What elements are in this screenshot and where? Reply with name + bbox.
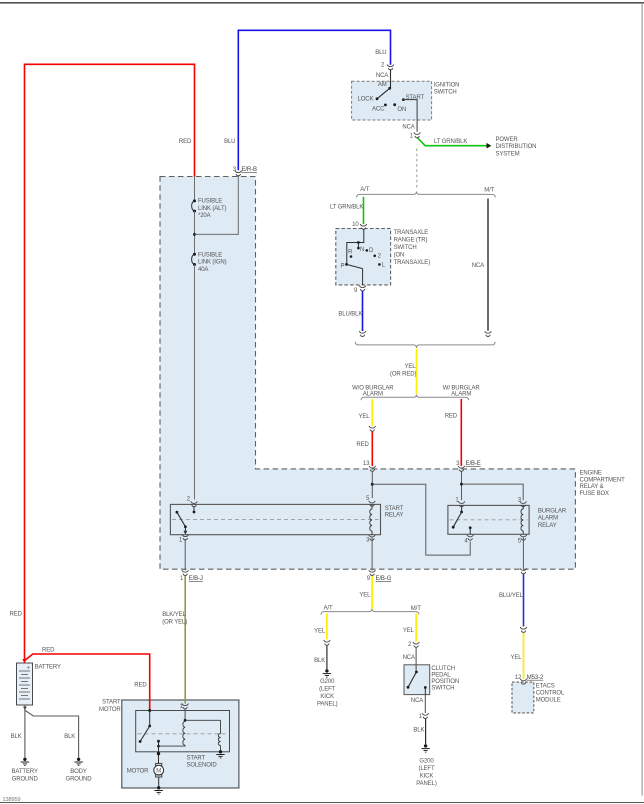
- svg-text:LINK (ALT): LINK (ALT): [198, 206, 226, 212]
- svg-text:YEL: YEL: [314, 629, 326, 635]
- svg-text:E/R-B: E/R-B: [242, 167, 258, 173]
- svg-text:BODY: BODY: [70, 769, 87, 775]
- battery negative arrowhead: [23, 707, 27, 711]
- svg-text:M53-2: M53-2: [527, 675, 544, 681]
- TR contact 2: [373, 255, 376, 258]
- svg-text:GROUND: GROUND: [12, 776, 39, 782]
- ignition switch blade AM-LOCK: [377, 88, 390, 99]
- page top border: [0, 2, 644, 4]
- hold-in coil: [218, 734, 220, 746]
- svg-text:P: P: [341, 264, 345, 270]
- svg-text:NCA: NCA: [402, 125, 414, 131]
- svg-text:BLK: BLK: [314, 658, 325, 664]
- svg-text:SYSTEM: SYSTEM: [496, 152, 520, 158]
- node on pin13 wire: [371, 483, 374, 486]
- svg-text:TRANSAXLE): TRANSAXLE): [394, 260, 431, 266]
- svg-text:G200: G200: [419, 758, 434, 764]
- ignition switch contact ON: [393, 103, 396, 106]
- svg-text:1: 1: [419, 714, 423, 720]
- ground: motor ground: [155, 786, 163, 794]
- svg-text:ETACS: ETACS: [536, 684, 555, 690]
- svg-text:ENGINE: ENGINE: [580, 471, 602, 477]
- page bottom border: [0, 802, 644, 803]
- wire: junction over and down to burglar relay pin 4: [372, 484, 470, 555]
- connector: TR switch pin 9: [359, 286, 366, 291]
- node on E/B-E wire: [460, 483, 463, 486]
- svg-text:10: 10: [352, 222, 359, 228]
- ground G200 (clutch): [421, 744, 429, 752]
- svg-text:BLU/YEL: BLU/YEL: [499, 593, 524, 599]
- ignition switch contact LOCK: [376, 97, 379, 100]
- start relay centerline: [172, 519, 379, 521]
- connector: start relay pin 2: [191, 501, 198, 506]
- svg-text:BLK: BLK: [413, 727, 424, 733]
- wire BLK to G200: [326, 645, 328, 669]
- battery box: [17, 663, 33, 705]
- wire across to hold-in coil: [185, 719, 220, 721]
- svg-text:MOTOR: MOTOR: [127, 768, 149, 774]
- svg-text:GROUND: GROUND: [66, 776, 93, 782]
- wire BLU/BLK from TR pin 9 down: [362, 291, 364, 331]
- svg-text:3: 3: [456, 461, 460, 467]
- wire gray: junction across and up to connector 3 E/R-B: [195, 175, 239, 234]
- svg-text:NCA: NCA: [411, 698, 423, 704]
- pull-in coil: [183, 721, 185, 745]
- svg-text:ALARM: ALARM: [363, 392, 383, 398]
- TR contact R: [350, 255, 353, 258]
- svg-text:AM: AM: [378, 82, 387, 88]
- svg-text:START: START: [406, 95, 425, 101]
- connector: inline yel-blk left: [324, 640, 331, 645]
- svg-text:BLK: BLK: [64, 734, 75, 740]
- burglar relay wire pin1 stub: [461, 505, 463, 511]
- connector: burglar relay pin 5: [520, 535, 527, 540]
- solenoid blade end contact: [139, 740, 142, 743]
- connector: clutch switch pin 1: [422, 713, 429, 718]
- connector: burglar relay pin 3: [520, 501, 527, 506]
- start relay contact (pin2): [193, 511, 196, 514]
- wire LT GRN/BLK A/T branch to TR switch pin 10: [363, 197, 365, 224]
- svg-text:CLUTCH: CLUTCH: [431, 666, 455, 672]
- svg-text:FUSE BOX: FUSE BOX: [580, 491, 609, 497]
- svg-text:(LEFT: (LEFT: [418, 766, 435, 772]
- svg-text:BLU: BLU: [375, 50, 386, 56]
- svg-text:NCA: NCA: [472, 263, 484, 269]
- start relay blade: [177, 512, 186, 526]
- clutch pedal position switch box: [404, 665, 430, 695]
- svg-text:FUSIBLE: FUSIBLE: [198, 252, 222, 258]
- svg-text:BURGLAR: BURGLAR: [538, 508, 567, 514]
- wire from clutch switch to connector 1: [424, 695, 426, 713]
- start relay blade to pin 1: [184, 525, 187, 528]
- svg-text:RED: RED: [134, 682, 147, 688]
- start motor outer box: [122, 700, 239, 788]
- connector: fuse box 9 E/B-G: [369, 570, 376, 575]
- TR contact D: [366, 249, 369, 252]
- wire from START contact out of ignition switch: [403, 100, 417, 132]
- hold-in coil lead: [220, 720, 222, 733]
- svg-text:(OR YEL): (OR YEL): [162, 619, 187, 625]
- svg-text:9: 9: [367, 576, 371, 582]
- connector: inline blu/yel to yel: [520, 627, 527, 632]
- start motor: node red entry at solenoid: [148, 709, 151, 712]
- svg-text:PANEL): PANEL): [416, 781, 437, 787]
- svg-text:SWITCH: SWITCH: [431, 685, 454, 691]
- wire BLU/YEL from burglar relay to inline connector: [523, 574, 525, 627]
- fusible link IGN symbol: [192, 254, 195, 264]
- svg-text:RELAY: RELAY: [385, 513, 404, 519]
- start relay coil (pins 5-3): [371, 504, 373, 509]
- svg-text:ACC: ACC: [372, 106, 385, 112]
- clutch switch output stub: [424, 688, 426, 695]
- svg-text:POWER: POWER: [496, 137, 519, 143]
- ignition switch contact AM: [388, 87, 391, 90]
- svg-text:M/T: M/T: [411, 606, 421, 612]
- clutch switch fixed contact: [424, 686, 427, 689]
- wire RED: branch from battery to start motor solenoid: [25, 654, 150, 711]
- svg-text:*20A: *20A: [198, 213, 211, 219]
- connector: start motor pin 1: [182, 704, 189, 709]
- connector: fuse box 3 E/R-B: [235, 171, 242, 176]
- start relay pin1 arrowhead: [184, 531, 188, 535]
- connector: start relay pin 5: [369, 501, 376, 506]
- svg-text:2: 2: [408, 642, 412, 648]
- svg-text:FUSIBLE: FUSIBLE: [198, 199, 222, 205]
- wire: pin 13 down to start relay pin 5: [371, 471, 373, 498]
- clutch switch blade end contact: [407, 686, 410, 689]
- svg-text:A/T: A/T: [324, 606, 333, 612]
- ground: battery ground: [21, 758, 29, 766]
- wire: start relay pin1 to box edge connector 1 E/B-J: [184, 539, 186, 571]
- connector: burglar relay pin 1: [458, 501, 465, 506]
- node coil return tap: [157, 745, 160, 748]
- svg-text:(LEFT: (LEFT: [319, 686, 336, 692]
- brace: burglar alarm option split: [361, 395, 469, 401]
- solenoid switch feed: [149, 711, 151, 727]
- svg-text:N: N: [360, 247, 364, 253]
- svg-text:KICK: KICK: [320, 694, 334, 700]
- svg-text:RELAY &: RELAY &: [580, 484, 604, 490]
- svg-text:RANGE (TR): RANGE (TR): [394, 238, 428, 244]
- wire YEL M/T branch to clutch switch: [415, 614, 417, 642]
- connector: ignition pin 2: [387, 65, 394, 70]
- svg-text:BLU: BLU: [224, 139, 235, 145]
- svg-text:RELAY: RELAY: [538, 523, 557, 529]
- solenoid fixed contact: [157, 740, 160, 743]
- connector: fuse box pin 3 E/B-E: [458, 466, 465, 471]
- svg-text:PEDAL: PEDAL: [431, 672, 451, 678]
- start relay box: [170, 504, 380, 534]
- engine compartment relay &amp; fuse box (L-shaped shaded block): [160, 177, 575, 570]
- ignition switch wire from connector 2 to AM contact: [390, 69, 392, 88]
- wire BLK/YEL (OR YEL) from 1 E/B-J to start motor: [184, 575, 186, 704]
- svg-text:PANEL): PANEL): [317, 702, 338, 708]
- connector: TR switch pin 10: [360, 224, 367, 229]
- burglar alarm relay box: [448, 505, 529, 534]
- arrowhead red at battery positive: [22, 659, 26, 664]
- burglar relay fixed contact to pin 4: [469, 526, 472, 529]
- wire RED below inline connector to fuse box pin 13: [371, 431, 373, 466]
- ETACS control module box: [512, 682, 534, 713]
- svg-text:RED: RED: [10, 612, 23, 618]
- svg-text:YEL: YEL: [359, 593, 371, 599]
- wire gray: battery negative branch to body ground: [25, 711, 78, 758]
- ignition switch contact ACC: [384, 104, 387, 107]
- svg-text:M: M: [156, 769, 161, 775]
- wire LT GRN/BLK to power distribution: [417, 138, 487, 146]
- fusible link ALT symbol: [192, 201, 195, 211]
- TR output wire to pin 9: [362, 269, 364, 286]
- wire RED: battery positive feed up and across to fusible link: [25, 64, 195, 660]
- burglar relay blade end contact: [452, 526, 455, 529]
- svg-text:2: 2: [381, 63, 385, 69]
- svg-text:LINK (IGN): LINK (IGN): [198, 260, 227, 266]
- svg-text:YEL: YEL: [403, 628, 415, 634]
- svg-text:138959: 138959: [3, 797, 21, 803]
- svg-text:RED: RED: [356, 442, 369, 448]
- svg-text:LOCK: LOCK: [358, 96, 374, 102]
- page right border: [642, 3, 643, 796]
- svg-text:E/B-J: E/B-J: [189, 576, 203, 582]
- clutch switch blade: [408, 672, 416, 687]
- svg-text:COMPARTMENT: COMPARTMENT: [580, 477, 626, 483]
- svg-text:MOTOR: MOTOR: [99, 707, 121, 713]
- svg-text:E/B-G: E/B-G: [376, 576, 392, 582]
- wire: burglar relay pin5 to box edge: [522, 538, 524, 569]
- connector: fuse box pin 13: [369, 466, 376, 471]
- burglar relay coil (pins 3-5): [522, 505, 524, 509]
- svg-text:G200: G200: [320, 679, 335, 685]
- dashed wire stub below connector 1 to A/T-M/T brace: [416, 149, 418, 190]
- svg-text:13: 13: [363, 461, 370, 467]
- connector: ETACS 12 M53-2: [520, 679, 527, 684]
- wire from fixed contact down to motor: [158, 741, 160, 763]
- wire gray: battery negative down: [24, 705, 26, 758]
- transaxle range switch box: [336, 229, 391, 285]
- wire gray: fusible link IGN down to start relay pin 2: [194, 265, 196, 500]
- svg-text:BLU/BLK: BLU/BLK: [338, 311, 362, 317]
- svg-text:M/T: M/T: [484, 188, 494, 194]
- TR contact N stub: [357, 243, 359, 248]
- svg-text:DISTRIBUTION: DISTRIBUTION: [496, 144, 537, 150]
- svg-text:LT GRN/BLK: LT GRN/BLK: [434, 139, 467, 145]
- svg-text:NCA: NCA: [376, 73, 388, 79]
- burglar relay contact (pin1): [460, 511, 463, 514]
- node: junction to E/R-B branch: [193, 233, 196, 236]
- svg-text:ALARM: ALARM: [538, 516, 558, 522]
- TR switch: wire pin10 into box: [347, 229, 364, 264]
- wire BLU: ignition pin2 to fuse box connector 3 E/R-B: [238, 30, 390, 170]
- wire: junction over and down to burglar relay pin 3: [462, 484, 524, 500]
- svg-text:1: 1: [410, 133, 414, 139]
- svg-text:START: START: [187, 755, 206, 761]
- svg-text:40A: 40A: [198, 267, 208, 273]
- hold-in coil to ground: [220, 746, 222, 752]
- connector: fuse box 1 E/B-J: [182, 570, 189, 575]
- solenoid switch pivot: [148, 725, 151, 728]
- svg-text:TRANSAXLE: TRANSAXLE: [394, 230, 429, 236]
- ignition switch box: [352, 81, 432, 120]
- svg-text:CONTROL: CONTROL: [536, 691, 565, 697]
- svg-text:RED: RED: [42, 647, 55, 653]
- svg-text:9: 9: [354, 288, 358, 294]
- svg-text:IGNITION: IGNITION: [434, 82, 460, 88]
- start solenoid inner box: [136, 711, 230, 752]
- svg-text:BATTERY: BATTERY: [12, 769, 38, 775]
- solenoid switch blade: [140, 726, 150, 742]
- wire RED w/ burglar alarm branch to pin 3 E/B-E: [460, 399, 462, 466]
- svg-text:BLK: BLK: [11, 734, 22, 740]
- svg-text:START: START: [102, 700, 121, 706]
- wire YEL A/T ground branch: [326, 614, 328, 640]
- wire YEL w/o burglar alarm branch: [371, 399, 373, 426]
- motor upper terminal: [156, 763, 162, 765]
- connector: ignition pin 1: [414, 132, 421, 137]
- wire: pin 3 E/B-E down to burglar relay pin 1: [461, 471, 463, 500]
- wire gray: between fusible links: [194, 211, 196, 254]
- ignition switch contact START: [402, 98, 405, 101]
- svg-text:MODULE: MODULE: [536, 697, 561, 703]
- wire gray: inside fuse box from red entry to fusible link ALT: [194, 177, 196, 201]
- burglar relay blade: [453, 512, 461, 527]
- burglar alarm relay centerline: [450, 519, 528, 521]
- svg-text:W/ BURGLAR: W/ BURGLAR: [443, 385, 481, 391]
- svg-text:SOLENOID: SOLENOID: [187, 763, 218, 769]
- svg-text:NCA: NCA: [403, 655, 415, 661]
- svg-text:SWITCH: SWITCH: [394, 245, 417, 251]
- svg-text:BATTERY: BATTERY: [35, 664, 61, 670]
- battery plates: [19, 671, 30, 699]
- connector: burglar relay pin 4: [467, 535, 474, 540]
- wire motor to case ground: [158, 777, 160, 787]
- node below solenoid box: [157, 752, 160, 755]
- wire YEL (OR RED): [416, 349, 418, 394]
- svg-text:YEL: YEL: [359, 414, 371, 420]
- node on TR common: [357, 241, 360, 244]
- svg-text:YEL: YEL: [511, 655, 523, 661]
- svg-text:W/O BURGLAR: W/O BURGLAR: [352, 385, 394, 391]
- TR contact L: [378, 263, 381, 266]
- start relay pivot contact: [176, 511, 179, 514]
- svg-text:KICK: KICK: [420, 774, 434, 780]
- connector: fuse box blu/yel exit: [520, 568, 527, 573]
- svg-text:POSITION: POSITION: [431, 679, 459, 685]
- svg-text:A/T: A/T: [360, 187, 369, 193]
- svg-text:E/B-E: E/B-E: [466, 461, 481, 467]
- wire YEL to ETACS module: [523, 632, 525, 679]
- connector: start relay pin 1: [182, 535, 189, 540]
- TR contact P: [345, 263, 348, 266]
- connector: clutch switch pin 2: [413, 642, 420, 647]
- brace: A/T / M/T option split: [357, 192, 496, 198]
- ground: solenoid ground: [216, 750, 224, 758]
- svg-text:SWITCH: SWITCH: [434, 89, 457, 95]
- TR blade P to output: [347, 264, 363, 268]
- svg-text:RED: RED: [179, 139, 192, 145]
- svg-text:RED: RED: [445, 414, 458, 420]
- start relay wire pin2 stub: [193, 506, 195, 511]
- brace: A/T M/T split at ground path: [321, 609, 419, 615]
- connector: start relay pin 3: [369, 535, 376, 540]
- connector: inline M/T: [485, 331, 492, 336]
- svg-text:(OR RED): (OR RED): [390, 372, 416, 378]
- wire into clutch pedal switch: [415, 647, 417, 672]
- connector: inline yel-red: [369, 426, 376, 431]
- svg-text:ON: ON: [397, 107, 406, 113]
- start solenoid centerline: [138, 733, 229, 735]
- wire BLK from connector to G200: [425, 718, 427, 744]
- motor lower terminal: [156, 775, 162, 777]
- svg-text:START: START: [385, 506, 404, 512]
- node coil feed: [184, 719, 187, 722]
- ground G200 (left): [323, 669, 331, 677]
- wire: start relay pin3 to box edge connector 9 E/B-G: [371, 538, 373, 571]
- svg-text:(ON: (ON: [394, 252, 405, 258]
- svg-text:BLK/YEL: BLK/YEL: [162, 612, 186, 618]
- clutch switch top contact: [415, 671, 418, 674]
- motor M circle: [154, 765, 164, 775]
- wire YEL from 9 E/B-G to A/T-M/T brace: [371, 575, 373, 609]
- svg-text:ALARM: ALARM: [451, 392, 471, 398]
- svg-text:1: 1: [180, 576, 184, 582]
- svg-text:12: 12: [515, 675, 522, 681]
- connector: inline A/T blue: [359, 331, 366, 336]
- svg-text:YEL: YEL: [405, 364, 417, 370]
- svg-text:LT GRN/BLK: LT GRN/BLK: [330, 205, 363, 211]
- wire BLK/YEL inside to pull-in coil: [184, 709, 186, 721]
- brace: A/T M/T rejoin: [355, 342, 495, 348]
- wire M/T branch NCA: [487, 199, 489, 331]
- pull-in coil return: [159, 744, 186, 747]
- ground: body ground: [74, 758, 82, 766]
- arrowhead to power distribution system: [487, 143, 492, 149]
